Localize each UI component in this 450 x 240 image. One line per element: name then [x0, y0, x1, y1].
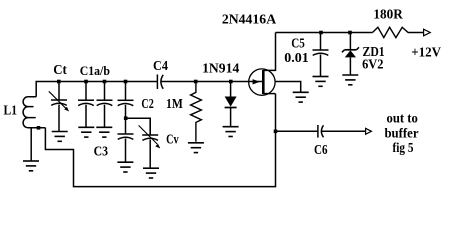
svg-text:180R: 180R [373, 7, 403, 22]
ground (1M) [188, 143, 204, 153]
transistor Q1 2N4416A (JFET) [249, 33, 276, 96]
node (C2/C3/Cv junction) [124, 116, 128, 120]
svg-text:C4: C4 [153, 59, 168, 74]
wire (+12V supply rail) [276, 32, 373, 34]
ground (C3) [117, 162, 133, 172]
ground (C5) [313, 77, 329, 87]
ground (1N914) [223, 127, 239, 137]
capacitor C1b [97, 82, 113, 128]
svg-text:fig 5: fig 5 [393, 141, 414, 156]
capacitor C6 [318, 125, 366, 138]
trimmer arrow Cv [139, 125, 158, 144]
node (Ct top) [57, 80, 61, 84]
svg-text:C1a/b: C1a/b [80, 63, 110, 78]
node (C1b top) [103, 80, 107, 84]
node (ZD1 top) [348, 31, 352, 35]
capacitor Cv [142, 118, 158, 168]
svg-text:out to: out to [387, 112, 418, 127]
ground (source stub) [293, 92, 309, 102]
wire (gate rail) [161, 81, 263, 83]
capacitor C2 [118, 82, 134, 119]
svg-text:2N4416A: 2N4416A [222, 13, 277, 28]
diode D1 1N914 [225, 82, 237, 127]
ground (Cv) [143, 168, 159, 178]
node (1M top) [194, 80, 198, 84]
wire (source bypass stub) [275, 82, 301, 93]
ground (ZD1) [342, 75, 358, 85]
svg-text:Ct: Ct [53, 62, 67, 77]
capacitor C1a [78, 82, 94, 128]
capacitor Ct [51, 82, 67, 132]
ground (C1b) [96, 127, 112, 137]
svg-text:1N914: 1N914 [202, 62, 239, 77]
+12V supply arrow [424, 29, 431, 36]
zener diode ZD1 [342, 33, 359, 75]
node (output junction) [274, 130, 278, 134]
wire (source feedback loop) [45, 94, 275, 187]
svg-text:buffer: buffer [384, 126, 418, 141]
svg-text:L1: L1 [4, 104, 17, 119]
node (C2 top) [124, 80, 128, 84]
ground (L1) [23, 161, 39, 171]
svg-text:1M: 1M [166, 97, 183, 112]
svg-text:C5: C5 [291, 37, 305, 52]
svg-text:0.01: 0.01 [284, 51, 309, 66]
trimmer arrow Ct [49, 91, 67, 109]
svg-text:Cv: Cv [166, 133, 179, 148]
node (diode top) [229, 80, 233, 84]
output arrow [366, 128, 372, 134]
resistor R1 1M [191, 82, 202, 142]
resistor R2 180R [373, 27, 424, 37]
svg-text:C6: C6 [314, 143, 328, 158]
wire (output to C6) [276, 130, 318, 132]
node (C5 top) [319, 31, 323, 35]
svg-text:C2: C2 [141, 97, 153, 112]
capacitor C5 [313, 33, 329, 77]
ground (C1a) [78, 127, 94, 137]
capacitor C4 [157, 75, 163, 90]
wire (junction to Cv) [126, 118, 151, 135]
svg-text:+12V: +12V [411, 45, 441, 60]
node (C1a top) [84, 80, 88, 84]
svg-text:6V2: 6V2 [362, 58, 383, 73]
capacitor C3 [118, 118, 134, 162]
node (L1 tap) [37, 126, 41, 130]
svg-text:C3: C3 [94, 145, 108, 160]
inductor L1 [23, 97, 45, 161]
wire (tank top rail) [36, 82, 157, 97]
ground (Ct) [52, 132, 68, 142]
